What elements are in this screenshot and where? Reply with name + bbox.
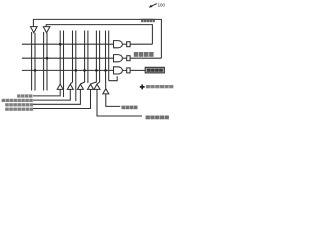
svg-text:100: 100 — [158, 2, 166, 7]
wire leader input 3 — [33, 90, 80, 105]
wire column p1a — [59, 31, 61, 85]
resistor F2 fuse — [127, 56, 130, 61]
wire feedback loop A: gate U2 output to buffer T_a input — [33, 19, 161, 58]
buffer T4 — [88, 84, 94, 89]
wire U2 output to fuse F2 — [122, 57, 126, 59]
node label mid (blow fuse) text blob — [134, 52, 154, 57]
wire leader input 2 — [33, 90, 70, 101]
wire column pair0d from T_b — [46, 33, 48, 91]
buffer T2 — [67, 84, 73, 89]
wire column p4b — [97, 31, 100, 85]
node 100 reference arrow — [149, 4, 157, 8]
wire U3 output to fuse F3 — [122, 69, 126, 71]
wire row 1 (product term 1) — [22, 43, 114, 45]
buffer T1 (bottom driver) — [57, 84, 63, 89]
wire column p4a — [91, 31, 97, 85]
node label B text blob — [146, 116, 169, 120]
node legend text blob — [146, 85, 173, 88]
wire leader input 5 (T5 to bottom right label) — [97, 90, 142, 117]
wire F1 to feedback B — [130, 43, 152, 45]
buffer T5 — [94, 84, 100, 89]
wire column p2b — [75, 31, 77, 102]
op-amp U1 AND gate row1 — [114, 41, 123, 48]
wire leader input 4 — [33, 90, 91, 109]
node programmed dot row3/p0b — [34, 69, 37, 72]
resistor F3 fuse — [127, 68, 130, 73]
node label L3 text blob — [5, 103, 33, 106]
wire column p1b — [63, 31, 65, 98]
op-amp U2 AND gate row2 — [114, 55, 123, 62]
op-amp U3 AND gate row3 — [114, 67, 123, 74]
wire column p3a — [80, 31, 84, 85]
wire column p3b — [87, 31, 89, 84]
wire p5a jog into T6 apex — [105, 70, 107, 88]
node label L1 text blob — [17, 94, 32, 97]
node programmed dot row3/p2b — [75, 69, 78, 72]
wire leader input 1 — [33, 90, 60, 96]
node programmed dot row3/p3a — [83, 69, 86, 72]
buffer T6 (offset lower) — [103, 89, 109, 94]
wire column p2a — [70, 31, 72, 85]
node label A text blob — [122, 106, 138, 110]
node programmed dot row1/p1a — [59, 43, 62, 46]
node label top (array label) text blob — [141, 19, 155, 23]
wire column p5a — [105, 31, 107, 71]
node programmed dot row2/p0d — [46, 57, 49, 60]
wire column pair0c from T_b — [43, 32, 45, 91]
node label L4 text blob — [5, 108, 33, 111]
wire column pair0a from T_a — [31, 32, 33, 91]
node programmed dot row3/p4a — [95, 69, 98, 72]
wire F3 to output box — [130, 69, 145, 71]
node programmed dot row3/p5a — [104, 69, 107, 72]
wire leader input 6 (T6 to right label) — [106, 94, 121, 106]
wire column pair0b from T_a — [34, 33, 36, 91]
wire row 2 (product term 2) — [22, 57, 114, 59]
node label L2 text blob — [2, 99, 33, 102]
wire stub right of p5b — [109, 76, 118, 80]
wire U1 output to fuse F1 — [122, 43, 126, 45]
wire column p5b — [108, 31, 110, 81]
buffer T3 — [77, 84, 83, 89]
wire F2 to feedback A — [130, 57, 161, 59]
buffer T_b (input buffer, points down) — [43, 27, 50, 33]
resistor F1 fuse — [127, 42, 130, 47]
node output label box (gray) — [145, 67, 164, 73]
wire row 3 (product term 3) — [22, 69, 114, 71]
buffer T_a (input buffer, points down) — [31, 27, 38, 33]
wire feedback loop B: gate U1 output to buffer T_b input — [46, 25, 152, 45]
node output box text blob — [147, 69, 163, 72]
node legend plus symbol — [140, 85, 145, 90]
